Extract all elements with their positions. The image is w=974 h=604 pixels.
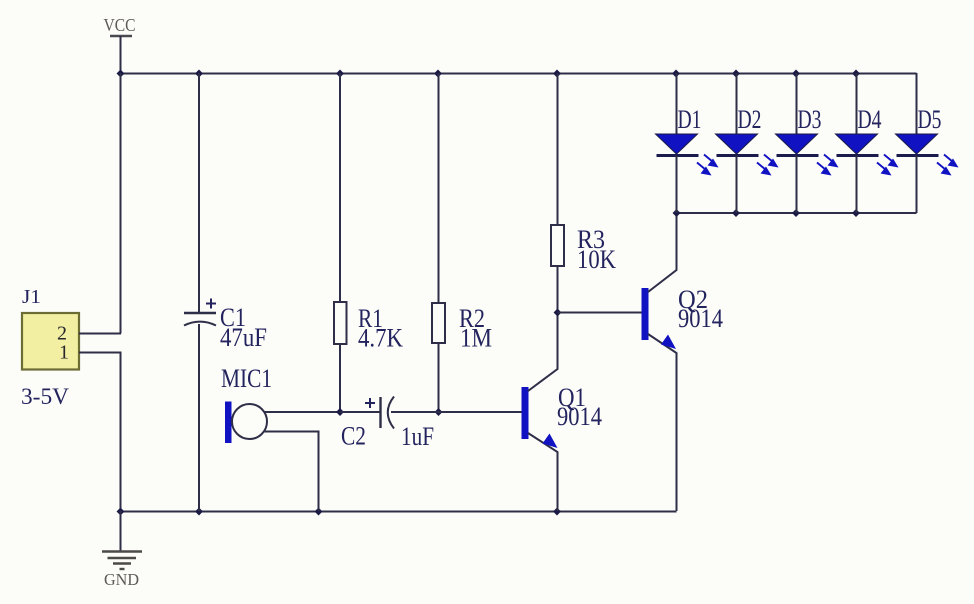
wire R1 bottom lead <box>339 344 341 412</box>
svg-text:3-5V: 3-5V <box>21 384 69 409</box>
svg-text:VCC: VCC <box>104 15 136 35</box>
MIC1 diaphragm bar <box>225 402 232 444</box>
wire GND stub <box>120 511 122 551</box>
D4 light arrow 2 <box>877 163 892 176</box>
junction bottom rail / GND <box>117 508 125 516</box>
svg-text:D5: D5 <box>918 105 942 134</box>
connector J1 <box>21 286 79 409</box>
MIC1 body circle <box>232 404 267 439</box>
Q2 base bar <box>642 288 649 340</box>
junction bottom rail / C1 <box>195 508 203 516</box>
junction cathode bus / D3 <box>792 209 800 217</box>
D1 light arrow 1 <box>704 155 719 168</box>
svg-text:D1: D1 <box>678 105 702 134</box>
junction top bus / D2 <box>732 70 740 78</box>
junction top bus / D4 <box>852 70 860 78</box>
D5 anode triangle <box>896 134 938 154</box>
wire node C to Q2 base <box>558 312 643 314</box>
junction cathode bus / D2 <box>732 209 740 217</box>
junction top bus / left rail <box>117 70 125 78</box>
wire Q1 emitter <box>528 433 558 511</box>
wire D4 cathode lead <box>856 156 858 214</box>
LED D3 <box>776 73 839 213</box>
C2 positive plate <box>379 397 381 428</box>
svg-text:D4: D4 <box>858 105 882 134</box>
R1 body <box>334 302 347 344</box>
wire D3 cathode lead <box>796 156 798 214</box>
wire D3 anode lead <box>796 73 798 134</box>
D1 anode triangle <box>656 134 698 154</box>
D3 light arrow 2 <box>817 163 832 176</box>
D5 light arrow 2 <box>937 163 952 176</box>
svg-text:1uF: 1uF <box>401 422 434 451</box>
wire R1 top lead <box>339 73 341 302</box>
wire R2 bottom lead <box>438 343 440 412</box>
D3 light arrow 1 <box>824 155 839 168</box>
D4 anode triangle <box>836 134 878 154</box>
junction top bus / D1 <box>672 70 680 78</box>
wire D5 anode lead <box>916 73 918 134</box>
D4 cathode bar <box>837 154 879 157</box>
wire D1 anode lead <box>676 73 678 134</box>
D2 cathode bar <box>717 154 759 157</box>
svg-text:9014: 9014 <box>557 402 602 431</box>
resistor R3 <box>551 73 616 313</box>
C1 positive plate <box>184 312 216 314</box>
junction top bus / C1 <box>195 70 203 78</box>
ground <box>102 511 142 589</box>
wire Q2 emitter <box>648 334 677 511</box>
wire LED cathode bus <box>676 212 917 214</box>
junction top bus / D3 <box>792 70 800 78</box>
svg-text:1M: 1M <box>460 324 492 353</box>
wire C2 to node B <box>391 411 439 413</box>
GND bar 3 <box>113 562 131 564</box>
svg-text:1: 1 <box>59 342 69 364</box>
svg-text:J1: J1 <box>22 286 41 308</box>
C2 plus sign <box>365 398 375 408</box>
wire J1 pin 1 to GND rail <box>79 353 121 512</box>
GND bar 4 <box>120 568 125 570</box>
node C junction R3/Q1 collector/Q2 base <box>554 309 562 317</box>
junction top bus / R2 <box>434 70 442 78</box>
R3 body <box>551 225 564 266</box>
svg-text:MIC1: MIC1 <box>221 364 272 393</box>
svg-text:GND: GND <box>104 570 139 589</box>
wire J1 pin 2 to VCC rail <box>79 333 121 335</box>
wire Q2 collector <box>648 213 677 292</box>
LED D5 <box>896 73 959 213</box>
LED D4 <box>836 73 899 213</box>
D2 light arrow 2 <box>757 163 772 176</box>
junction cathode bus / D1 <box>673 209 681 217</box>
C2 negative plate <box>388 397 394 429</box>
power symbol VCC <box>104 15 136 73</box>
LED D2 <box>716 73 779 213</box>
D5 cathode bar <box>897 154 939 157</box>
svg-text:9014: 9014 <box>678 304 723 333</box>
D3 anode triangle <box>776 134 818 154</box>
resistor R1 <box>334 73 403 412</box>
node A junction R1/MIC1/C2 <box>336 408 344 416</box>
wire bottom GND rail <box>120 511 677 513</box>
Q1 base bar <box>522 387 529 439</box>
wire D4 anode lead <box>856 73 858 134</box>
wire MIC1 bottom to GND rail <box>264 432 319 512</box>
Q2 emitter arrow <box>661 335 676 350</box>
svg-text:C2: C2 <box>341 422 366 451</box>
junction bottom rail / MIC1 <box>315 508 323 516</box>
svg-text:47uF: 47uF <box>220 323 267 352</box>
VCC bar <box>110 35 132 37</box>
wire top VCC bus <box>120 73 917 75</box>
svg-text:10K: 10K <box>577 245 616 274</box>
junction cathode bus / D4 <box>852 209 860 217</box>
D3 cathode bar <box>777 154 819 157</box>
C1 plus sign <box>206 299 216 309</box>
wire node B to Q1 base <box>439 411 523 413</box>
GND bar 1 <box>102 550 142 552</box>
wire R3 top lead <box>557 73 559 225</box>
D5 light arrow 1 <box>944 155 959 168</box>
D2 anode triangle <box>716 134 758 154</box>
svg-text:4.7K: 4.7K <box>358 324 403 353</box>
wire D2 anode lead <box>736 73 738 134</box>
capacitor C1 <box>184 73 267 511</box>
J1 body <box>22 313 79 370</box>
C1 negative plate <box>184 322 216 326</box>
D4 light arrow 1 <box>884 155 899 168</box>
wire D2 cathode lead <box>736 156 738 214</box>
svg-text:D3: D3 <box>798 105 822 134</box>
transistor Q1 <box>522 313 603 512</box>
D1 cathode bar <box>657 154 699 157</box>
resistor R2 <box>432 73 492 412</box>
wire R3 bottom lead <box>557 266 559 313</box>
wire D5 cathode lead <box>916 156 918 214</box>
GND bar 2 <box>108 557 137 559</box>
wire node A to C2 <box>340 411 380 413</box>
junction top bus / R3 <box>553 70 561 78</box>
transistor Q2 <box>642 213 724 511</box>
wire left rail VCC to J1 pin 2 <box>120 73 122 334</box>
wire Q1 collector <box>528 313 558 392</box>
D1 light arrow 2 <box>697 163 712 176</box>
R2 body <box>432 303 445 343</box>
wire C1 bottom lead <box>198 324 200 511</box>
LED D1 <box>656 73 719 213</box>
svg-text:D2: D2 <box>738 105 762 134</box>
wire MIC1 top to node A <box>264 411 341 413</box>
wire D1 cathode lead <box>676 156 678 214</box>
junction bottom rail / Q1 emitter <box>553 508 561 516</box>
node B junction R2/C2/Q1 base <box>435 408 443 416</box>
wire C1 top lead <box>198 73 200 312</box>
wire R2 top lead <box>438 73 440 303</box>
Q1 emitter arrow <box>543 434 558 449</box>
microphone MIC1 <box>221 364 340 511</box>
wire VCC stub <box>120 36 122 73</box>
D2 light arrow 1 <box>764 155 779 168</box>
capacitor C2 <box>340 397 439 452</box>
junction top bus / R1 <box>336 70 344 78</box>
